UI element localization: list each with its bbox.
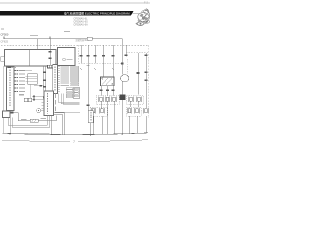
key switch symbol <box>36 108 40 112</box>
svg-text:F-2: F-2 <box>144 1 148 5</box>
return wire <box>55 112 80 114</box>
U2 lead 2 <box>107 86 109 96</box>
lamp cluster 4 frame <box>127 107 142 116</box>
svg-text:CF500: CF500 <box>1 32 9 36</box>
fan feed wire <box>137 53 139 95</box>
wire labels <box>21 119 27 120</box>
svg-text:电气系统原理图 ELECTRIC PRINCIPLE DIA: 电气系统原理图 ELECTRIC PRINCIPLE DIAGRAM <box>64 10 130 15</box>
stray note 1 <box>30 34 38 37</box>
connector rect on frame <box>1 57 4 62</box>
stub wire x95 <box>94 45 96 63</box>
harness bus wires <box>43 67 45 92</box>
lamp cluster 3 frame <box>127 96 144 105</box>
harness box A <box>5 50 57 67</box>
ATV vignette <box>136 9 150 26</box>
sensor box on x88 <box>88 111 93 123</box>
svg-text:CF625: CF625 <box>1 40 9 43</box>
box A divider <box>29 50 31 67</box>
lamp L3 <box>112 97 116 103</box>
wire drop x37 <box>37 39 39 50</box>
pin labels of left column <box>19 70 25 95</box>
dashed sub-box bottom <box>79 62 124 64</box>
connector bundle under box A <box>48 65 57 68</box>
box B inner symbol <box>63 58 66 61</box>
stub from box A to column <box>7 66 11 68</box>
column vertical text <box>9 70 11 108</box>
horn lead <box>121 82 123 95</box>
lamp L6 <box>100 108 104 114</box>
pin connector rows of left column <box>15 70 18 92</box>
harness box B <box>58 48 76 66</box>
wire U1 area to bus <box>34 85 44 87</box>
page top rule <box>0 2 150 4</box>
footer rule left <box>2 140 70 142</box>
lamp drops to ground rail <box>94 63 147 135</box>
stub wire x88 <box>87 45 89 63</box>
long wire x89 <box>87 63 89 111</box>
lamp L7 <box>129 97 133 103</box>
fuse group frame <box>74 87 80 99</box>
flasher pin ticks <box>42 103 45 109</box>
footer rule right <box>78 140 148 142</box>
right section dashed rule <box>126 52 148 54</box>
lamp L2 <box>105 97 109 103</box>
control unit U1 <box>28 74 38 85</box>
fuses inside frame <box>74 88 78 96</box>
flasher side wires <box>54 112 65 134</box>
vline below U1 <box>29 84 31 98</box>
horn M1 <box>121 75 129 82</box>
ground rail <box>3 133 149 135</box>
aux connector squares <box>33 96 35 98</box>
regulator U2 <box>101 77 115 86</box>
aux rect pair <box>24 98 28 102</box>
flasher drop <box>51 116 53 135</box>
connector at unit <box>11 112 14 114</box>
top feed wire <box>4 37 122 46</box>
title bar <box>0 11 134 16</box>
battery G1 <box>119 95 125 101</box>
connector pair on x50 <box>49 51 52 53</box>
tick on flasher edge <box>43 97 45 99</box>
bend wires from CN2 <box>59 94 80 103</box>
flasher right labels <box>55 94 56 112</box>
right rail wire <box>145 53 147 97</box>
bus connectors <box>43 72 46 74</box>
rail junctions <box>9 133 123 135</box>
dashed sub-box left edge <box>78 45 80 63</box>
harness dashed boundary <box>1 44 148 46</box>
fuse F1 <box>87 37 92 40</box>
right frame dashed wire <box>147 45 149 118</box>
lamp L11 <box>144 108 148 114</box>
stub node at x50 <box>49 36 51 38</box>
stray note 2 <box>64 31 70 32</box>
nested wire 1 <box>8 116 47 126</box>
corner note <box>1 29 4 30</box>
ignition coil feed <box>103 63 105 77</box>
svg-text:7: 7 <box>73 140 75 144</box>
fuse rows <box>66 88 73 98</box>
stub wire x81 <box>80 45 82 63</box>
lamp L1 <box>99 97 103 103</box>
U1 pin ticks <box>26 76 28 81</box>
wire from unit to coil run <box>13 113 56 121</box>
lamp cluster 2 frame <box>90 107 107 116</box>
sensor drop <box>90 123 92 135</box>
lamp L5 <box>91 108 95 114</box>
lamp L10 <box>135 108 139 114</box>
left frame wire <box>2 66 4 133</box>
stub wire x113 <box>112 45 114 63</box>
left connector column box <box>7 67 15 111</box>
pin rows of CN2 <box>58 66 79 91</box>
nested wire 2 <box>10 118 50 134</box>
title bar tail rule <box>133 13 140 15</box>
lamp cluster 1 frame <box>96 96 119 105</box>
stub wire x126 <box>125 45 127 56</box>
wire drop x50 <box>49 39 51 67</box>
wire circle to box <box>41 110 44 112</box>
connector block CN2 <box>53 65 58 94</box>
svg-text:CF500AU-6A: CF500AU-6A <box>74 23 89 26</box>
dashed branch <box>127 59 129 74</box>
lamp L8 <box>137 97 141 103</box>
flasher box <box>44 91 54 116</box>
U2 lead 1 <box>100 86 102 96</box>
left bottom unit <box>3 111 11 118</box>
horn feed wire <box>121 39 123 75</box>
aux wires <box>32 95 44 97</box>
lamp L9 <box>127 108 131 114</box>
resistor coil <box>30 119 38 122</box>
wire to U1 <box>18 70 32 72</box>
battery lead <box>121 100 123 134</box>
stub wire x103.5 <box>103 45 105 63</box>
